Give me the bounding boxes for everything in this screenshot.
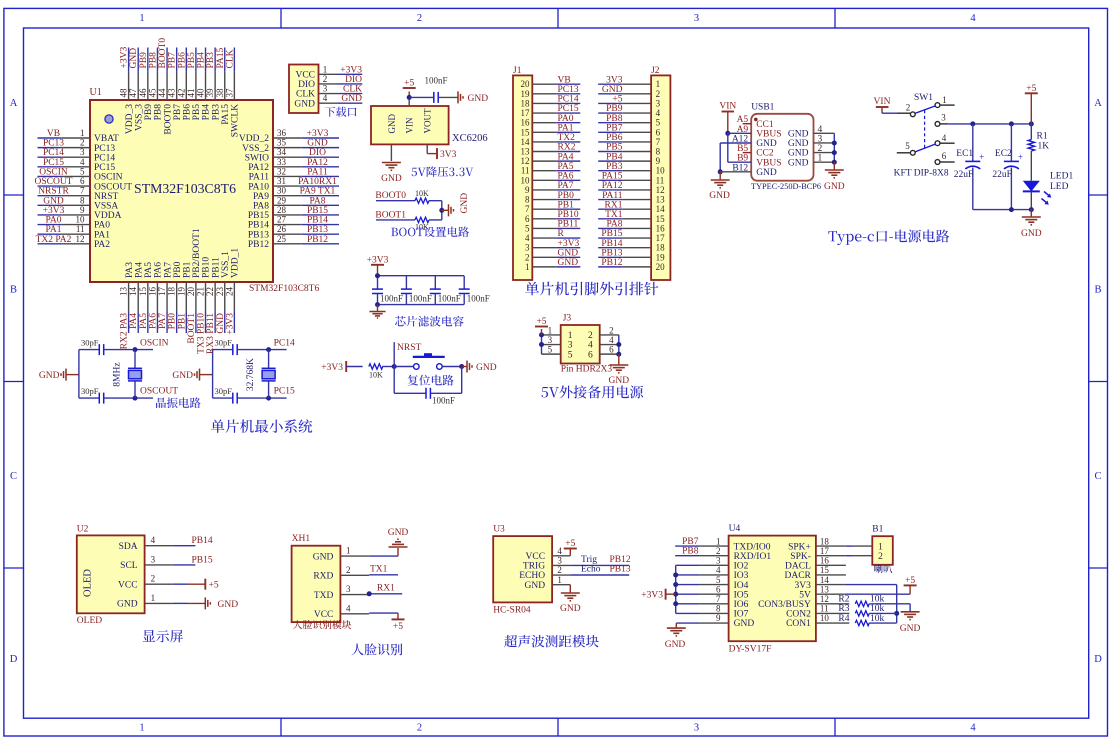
svg-text:22: 22	[205, 287, 215, 296]
svg-text:PC14: PC14	[94, 153, 115, 163]
svg-text:PC13: PC13	[43, 139, 64, 149]
svg-text:CLK: CLK	[225, 49, 235, 68]
svg-text:PB15: PB15	[601, 229, 622, 239]
svg-text:DY-SV17F: DY-SV17F	[729, 645, 772, 655]
svg-text:1: 1	[818, 154, 823, 164]
svg-text:GND: GND	[218, 600, 239, 610]
svg-text:DIO: DIO	[298, 80, 315, 90]
svg-text:RX3 PB11: RX3 PB11	[206, 313, 216, 354]
svg-text:3: 3	[323, 84, 328, 94]
svg-text:PB13: PB13	[601, 248, 622, 258]
svg-text:+5: +5	[565, 539, 575, 549]
svg-text:4: 4	[80, 157, 85, 167]
svg-text:BOOT1: BOOT1	[187, 313, 197, 344]
svg-text:8: 8	[80, 195, 85, 205]
svg-text:+3V3: +3V3	[307, 129, 329, 139]
svg-text:1: 1	[557, 575, 562, 585]
svg-text:10: 10	[521, 175, 531, 185]
svg-text:30pF: 30pF	[215, 338, 233, 348]
svg-text:2: 2	[878, 552, 883, 562]
svg-text:1: 1	[942, 95, 947, 105]
svg-text:PC14: PC14	[43, 148, 64, 158]
svg-text:PB12: PB12	[307, 235, 328, 245]
svg-text:U3: U3	[493, 525, 505, 535]
svg-text:PB5: PB5	[192, 104, 202, 121]
svg-text:PB5: PB5	[606, 143, 623, 153]
svg-text:OSCIN: OSCIN	[140, 339, 169, 349]
svg-text:19: 19	[656, 252, 666, 262]
svg-text:VSSA: VSSA	[94, 202, 118, 212]
svg-text:9: 9	[716, 613, 721, 623]
svg-text:100nF: 100nF	[424, 76, 447, 86]
svg-text:PA12: PA12	[248, 163, 269, 173]
svg-text:VCC: VCC	[314, 610, 334, 620]
svg-text:4: 4	[323, 93, 328, 103]
svg-text:OSCOUT: OSCOUT	[140, 387, 178, 397]
svg-text:GND: GND	[172, 371, 193, 381]
svg-text:DACL: DACL	[785, 562, 811, 572]
svg-text:PB3: PB3	[206, 52, 216, 69]
svg-text:10K: 10K	[415, 189, 429, 198]
svg-text:PB13: PB13	[610, 565, 631, 575]
svg-text:2: 2	[557, 565, 562, 575]
svg-text:4: 4	[525, 233, 530, 243]
svg-text:B: B	[10, 284, 17, 295]
svg-text:GND: GND	[602, 85, 623, 95]
svg-text:U1: U1	[90, 87, 102, 98]
svg-text:XH1: XH1	[292, 534, 311, 544]
svg-text:10: 10	[820, 613, 830, 623]
svg-text:PB6: PB6	[182, 104, 192, 121]
svg-text:43: 43	[167, 88, 177, 98]
svg-text:20: 20	[656, 262, 666, 272]
svg-text:2: 2	[323, 74, 328, 84]
svg-text:+5: +5	[404, 79, 414, 89]
svg-text:20: 20	[186, 287, 196, 297]
svg-text:VSS_1: VSS_1	[221, 251, 231, 278]
svg-text:11: 11	[76, 224, 85, 234]
svg-text:35: 35	[277, 138, 287, 148]
svg-text:42: 42	[176, 89, 186, 98]
svg-text:NRST: NRST	[397, 343, 421, 353]
svg-text:21: 21	[196, 287, 206, 296]
svg-text:41: 41	[186, 89, 196, 98]
svg-text:CON1: CON1	[786, 619, 811, 629]
svg-text:RX1: RX1	[605, 200, 623, 210]
svg-text:11: 11	[820, 604, 829, 614]
svg-text:GND: GND	[734, 619, 755, 629]
svg-text:PC15: PC15	[94, 163, 115, 173]
svg-text:31: 31	[277, 176, 286, 186]
svg-text:VBUS: VBUS	[756, 130, 781, 140]
svg-text:18: 18	[167, 287, 177, 297]
svg-text:PA2: PA2	[94, 240, 110, 250]
svg-text:12: 12	[820, 594, 829, 604]
svg-text:4: 4	[818, 125, 823, 135]
svg-text:CC2: CC2	[756, 149, 774, 159]
svg-text:7: 7	[80, 186, 85, 196]
svg-text:3V3: 3V3	[606, 75, 623, 85]
svg-text:GND: GND	[387, 114, 397, 134]
svg-text:5: 5	[525, 223, 530, 233]
svg-text:PB13: PB13	[248, 230, 269, 240]
svg-text:2: 2	[588, 331, 593, 341]
svg-text:GND: GND	[129, 48, 139, 69]
svg-text:1: 1	[656, 79, 661, 89]
svg-text:PB8: PB8	[154, 104, 164, 121]
svg-text:VBUS: VBUS	[756, 158, 781, 168]
svg-text:PA6: PA6	[558, 172, 574, 182]
svg-text:TRIG: TRIG	[523, 562, 545, 572]
svg-text:PC15: PC15	[558, 104, 579, 114]
svg-text:GND: GND	[900, 624, 921, 634]
svg-text:GND: GND	[341, 94, 362, 104]
svg-text:GND: GND	[460, 193, 470, 214]
svg-text:16: 16	[656, 223, 666, 233]
svg-text:HC-SR04: HC-SR04	[493, 605, 531, 615]
svg-text:GND: GND	[788, 158, 809, 168]
svg-text:3: 3	[818, 134, 823, 144]
svg-text:16: 16	[820, 556, 830, 566]
svg-text:18: 18	[820, 536, 830, 546]
svg-text:3: 3	[557, 556, 562, 566]
svg-text:GND: GND	[43, 196, 64, 206]
svg-text:J2: J2	[651, 66, 660, 76]
svg-text:9: 9	[80, 205, 85, 215]
svg-text:SDA: SDA	[119, 542, 138, 552]
svg-text:12: 12	[76, 234, 85, 244]
svg-text:D: D	[10, 654, 18, 665]
svg-text:6: 6	[525, 214, 530, 224]
svg-text:1: 1	[151, 593, 156, 603]
svg-text:8: 8	[525, 195, 530, 205]
svg-text:GND: GND	[788, 130, 809, 140]
svg-text:PB6: PB6	[177, 52, 187, 69]
svg-text:100nF: 100nF	[380, 294, 403, 304]
svg-text:A: A	[1094, 98, 1102, 109]
svg-text:IO4: IO4	[734, 581, 749, 591]
svg-text:PC15: PC15	[274, 387, 295, 397]
svg-text:PA6: PA6	[154, 262, 164, 278]
svg-text:PB2/BOOT1: PB2/BOOT1	[192, 228, 202, 278]
svg-text:GND: GND	[665, 640, 686, 650]
svg-text:PA11: PA11	[307, 167, 328, 177]
svg-text:PC13: PC13	[94, 144, 115, 154]
svg-text:4: 4	[970, 723, 976, 734]
svg-text:GND: GND	[560, 604, 581, 614]
svg-text:VB: VB	[558, 75, 571, 85]
svg-text:15: 15	[138, 287, 148, 297]
svg-text:1K: 1K	[1038, 141, 1050, 151]
svg-text:14: 14	[656, 204, 666, 214]
svg-text:1: 1	[80, 128, 85, 138]
svg-text:5V: 5V	[799, 590, 811, 600]
svg-text:TYPEC-250D-BCP6: TYPEC-250D-BCP6	[751, 182, 821, 191]
svg-text:PB14: PB14	[307, 216, 328, 226]
svg-text:14: 14	[128, 287, 138, 297]
svg-text:R3: R3	[838, 604, 849, 614]
svg-text:PB6: PB6	[606, 133, 623, 143]
svg-text:OLED: OLED	[77, 616, 102, 626]
svg-text:GND: GND	[756, 139, 777, 149]
svg-text:VDD_1: VDD_1	[231, 248, 241, 278]
svg-text:RXD/IO1: RXD/IO1	[734, 552, 772, 562]
svg-text:PA12: PA12	[602, 181, 623, 191]
svg-text:30: 30	[277, 186, 287, 196]
svg-text:30pF: 30pF	[81, 386, 99, 396]
svg-text:PA4: PA4	[129, 313, 139, 329]
svg-text:5: 5	[905, 141, 910, 151]
svg-text:6: 6	[80, 176, 85, 186]
svg-text:13: 13	[820, 584, 830, 594]
svg-text:LED: LED	[1050, 182, 1069, 192]
svg-text:RX2 PA3: RX2 PA3	[120, 313, 130, 350]
svg-text:39: 39	[205, 88, 215, 98]
svg-text:40: 40	[196, 88, 206, 98]
svg-text:GND: GND	[313, 552, 334, 562]
svg-text:TXD/IO0: TXD/IO0	[734, 542, 771, 552]
svg-text:+5: +5	[612, 95, 622, 105]
svg-text:GND: GND	[117, 600, 138, 610]
svg-text:PB9: PB9	[144, 104, 154, 121]
svg-text:6: 6	[609, 345, 614, 355]
svg-text:5: 5	[716, 575, 721, 585]
svg-text:VB: VB	[47, 129, 60, 139]
svg-text:GND: GND	[558, 258, 579, 268]
svg-text:R2: R2	[838, 595, 849, 605]
svg-text:LED1: LED1	[1050, 172, 1073, 182]
svg-text:DIO: DIO	[345, 75, 362, 85]
svg-text:15: 15	[820, 565, 830, 575]
svg-text:17: 17	[820, 546, 830, 556]
svg-text:+3V3: +3V3	[225, 313, 235, 335]
svg-text:PA5: PA5	[139, 313, 149, 329]
svg-text:VOUT: VOUT	[423, 108, 433, 133]
svg-text:5: 5	[80, 166, 85, 176]
svg-text:36: 36	[277, 128, 287, 138]
svg-text:14: 14	[521, 137, 531, 147]
svg-text:B1: B1	[872, 525, 883, 535]
svg-text:10: 10	[656, 166, 666, 176]
svg-text:14: 14	[820, 575, 830, 585]
svg-text:3: 3	[716, 556, 721, 566]
svg-text:NRST: NRST	[94, 192, 118, 202]
svg-text:IO5: IO5	[734, 590, 749, 600]
svg-text:PB7: PB7	[606, 123, 623, 133]
svg-text:PA1: PA1	[558, 123, 574, 133]
svg-text:OSCIN: OSCIN	[94, 173, 123, 183]
svg-text:2: 2	[346, 565, 351, 575]
svg-text:19: 19	[521, 89, 531, 99]
svg-text:3: 3	[941, 113, 946, 123]
svg-text:16: 16	[521, 118, 531, 128]
svg-text:2: 2	[417, 723, 422, 734]
svg-text:+3V3: +3V3	[340, 65, 362, 75]
svg-text:11: 11	[656, 175, 665, 185]
svg-text:IO7: IO7	[734, 610, 749, 620]
svg-text:+5: +5	[536, 317, 546, 327]
svg-text:PA8: PA8	[309, 196, 325, 206]
svg-text:PA1: PA1	[94, 230, 110, 240]
svg-text:OLED: OLED	[83, 569, 94, 597]
svg-text:GND: GND	[756, 168, 777, 178]
svg-text:PB9: PB9	[606, 104, 623, 114]
svg-text:2: 2	[906, 103, 911, 113]
svg-text:13: 13	[656, 195, 666, 205]
svg-text:RX1: RX1	[377, 584, 395, 594]
svg-text:5: 5	[568, 350, 573, 360]
svg-text:9: 9	[525, 185, 530, 195]
svg-text:10K: 10K	[415, 223, 429, 232]
svg-text:VIN: VIN	[874, 97, 891, 107]
svg-text:PB15: PB15	[248, 211, 269, 221]
svg-text:BOOT0: BOOT0	[158, 38, 168, 69]
svg-text:3: 3	[525, 243, 530, 253]
svg-text:GND: GND	[824, 182, 845, 192]
svg-text:U4: U4	[729, 524, 741, 534]
svg-text:Pin HDR2X3: Pin HDR2X3	[561, 365, 613, 375]
svg-text:USB1: USB1	[751, 102, 774, 112]
svg-text:100nF: 100nF	[467, 294, 490, 304]
svg-text:PA10: PA10	[248, 182, 269, 192]
svg-text:PB14: PB14	[192, 536, 213, 546]
svg-text:PA15: PA15	[216, 47, 226, 68]
svg-text:7: 7	[656, 137, 661, 147]
svg-text:TX3 PB10: TX3 PB10	[197, 313, 207, 354]
svg-text:29: 29	[277, 195, 287, 205]
svg-text:ECHO: ECHO	[519, 571, 545, 581]
svg-text:4: 4	[346, 603, 351, 613]
svg-text:CON3/BUSY: CON3/BUSY	[758, 600, 811, 610]
svg-text:SPK-: SPK-	[790, 552, 811, 562]
svg-text:1: 1	[139, 13, 144, 24]
svg-text:PC14: PC14	[274, 339, 295, 349]
svg-text:GND: GND	[709, 191, 730, 201]
svg-text:2: 2	[525, 252, 530, 262]
svg-text:A: A	[10, 98, 18, 109]
svg-text:GND: GND	[307, 139, 328, 149]
svg-text:6: 6	[942, 151, 947, 161]
svg-text:PA9 TX1: PA9 TX1	[300, 187, 336, 197]
svg-text:3: 3	[568, 341, 573, 351]
svg-text:4: 4	[151, 535, 156, 545]
svg-text:C: C	[1094, 471, 1101, 482]
svg-text:PA5: PA5	[558, 162, 574, 172]
svg-text:GND: GND	[216, 313, 226, 334]
svg-text:B: B	[1094, 284, 1101, 295]
svg-text:+3V3: +3V3	[120, 47, 130, 69]
svg-text:25: 25	[277, 234, 287, 244]
svg-text:J3: J3	[563, 314, 572, 324]
svg-text:TXD: TXD	[314, 591, 334, 601]
svg-text:12: 12	[656, 185, 665, 195]
svg-text:100nF: 100nF	[409, 294, 432, 304]
svg-text:PB7: PB7	[173, 104, 183, 121]
svg-text:1: 1	[716, 536, 721, 546]
svg-text:CLK: CLK	[343, 85, 362, 95]
svg-text:PA7: PA7	[163, 262, 173, 278]
svg-text:SW1: SW1	[914, 93, 933, 103]
svg-text:NRSTR: NRSTR	[38, 187, 69, 197]
svg-text:PA11: PA11	[249, 173, 270, 183]
svg-text:1: 1	[525, 262, 530, 272]
svg-text:1: 1	[139, 723, 144, 734]
svg-text:TX1: TX1	[605, 210, 623, 220]
svg-text:R4: R4	[838, 614, 849, 624]
svg-text:VCC: VCC	[118, 580, 138, 590]
svg-text:48: 48	[119, 88, 129, 98]
svg-text:15: 15	[521, 127, 531, 137]
svg-text:7: 7	[525, 204, 530, 214]
svg-text:6: 6	[716, 584, 721, 594]
svg-text:6: 6	[588, 350, 593, 360]
svg-text:30pF: 30pF	[81, 338, 99, 348]
svg-text:PB11: PB11	[558, 220, 579, 230]
svg-text:PA0: PA0	[45, 216, 61, 226]
svg-text:+3V3: +3V3	[367, 255, 389, 265]
svg-text:GND: GND	[1021, 229, 1042, 239]
svg-text:16: 16	[147, 287, 157, 297]
svg-text:3: 3	[151, 554, 156, 564]
svg-text:GND: GND	[609, 376, 630, 386]
svg-text:10: 10	[76, 215, 86, 225]
svg-text:PB15: PB15	[192, 555, 213, 565]
svg-text:26: 26	[277, 224, 287, 234]
svg-text:28: 28	[277, 205, 287, 215]
svg-text:3: 3	[346, 584, 351, 594]
svg-text:3: 3	[694, 13, 699, 24]
svg-text:32.768K: 32.768K	[246, 358, 256, 391]
svg-text:3V3: 3V3	[440, 150, 457, 160]
svg-text:VCC: VCC	[526, 552, 546, 562]
svg-text:2: 2	[818, 144, 823, 154]
svg-text:PA3: PA3	[125, 262, 135, 278]
svg-text:PB7: PB7	[682, 537, 699, 547]
svg-text:PB9: PB9	[139, 52, 149, 69]
svg-text:PA7: PA7	[558, 181, 574, 191]
svg-text:SWIO: SWIO	[245, 153, 269, 163]
svg-text:38: 38	[215, 88, 225, 98]
svg-text:PB12: PB12	[248, 240, 269, 250]
svg-text:2: 2	[80, 138, 85, 148]
svg-text:TX2: TX2	[558, 133, 576, 143]
svg-text:XC6206: XC6206	[452, 133, 488, 144]
svg-text:32: 32	[277, 166, 286, 176]
svg-text:34: 34	[277, 147, 287, 157]
svg-text:PA4: PA4	[558, 152, 574, 162]
svg-text:U2: U2	[77, 524, 89, 534]
svg-text:PA0: PA0	[558, 114, 574, 124]
svg-text:R1: R1	[1037, 132, 1048, 142]
svg-text:2: 2	[716, 546, 721, 556]
svg-text:PB10: PB10	[202, 257, 212, 278]
svg-text:2: 2	[656, 89, 661, 99]
svg-text:PB12: PB12	[601, 258, 622, 268]
svg-text:STM32F103C8T6: STM32F103C8T6	[134, 181, 236, 196]
svg-text:PA7: PA7	[158, 313, 168, 329]
svg-text:47: 47	[128, 88, 138, 98]
svg-text:18: 18	[656, 243, 666, 253]
svg-text:PA10RX1: PA10RX1	[298, 177, 337, 187]
svg-text:IO6: IO6	[734, 600, 749, 610]
svg-text:7: 7	[716, 594, 721, 604]
svg-text:KFT DIP-8X8: KFT DIP-8X8	[894, 168, 949, 178]
svg-text:PC15: PC15	[43, 158, 64, 168]
svg-text:PB14: PB14	[248, 221, 269, 231]
svg-text:PB8: PB8	[606, 114, 623, 124]
svg-text:BOOT0: BOOT0	[375, 191, 406, 201]
svg-text:Echo: Echo	[581, 565, 601, 575]
